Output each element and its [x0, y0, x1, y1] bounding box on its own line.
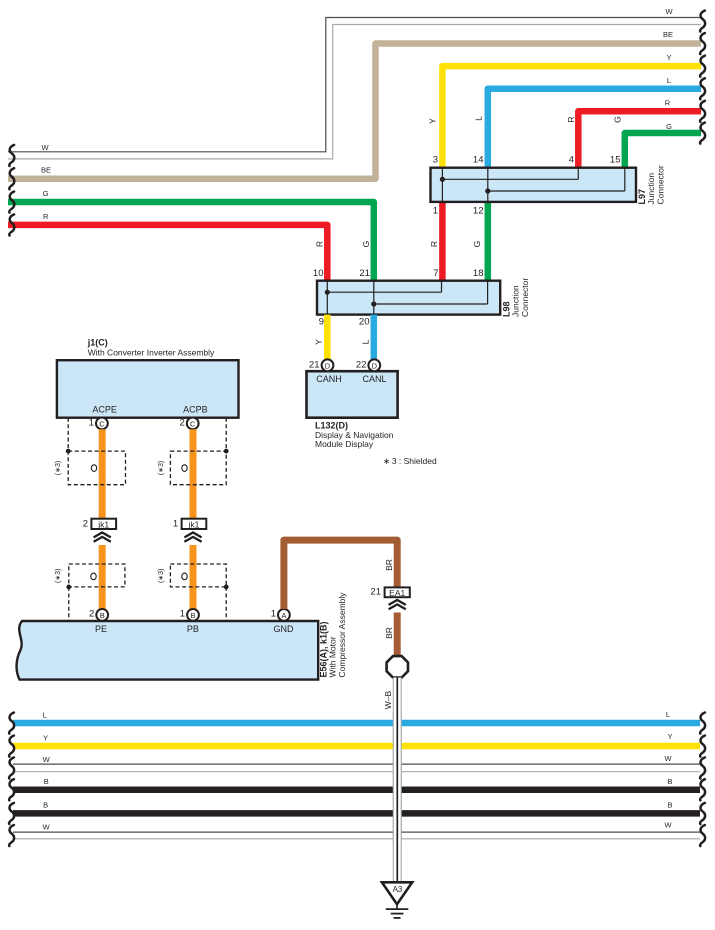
wire Y to L97 pin 3: [428, 53, 706, 169]
wire Y L98 pin9 to L132: [314, 315, 328, 360]
svg-text:Compressor Assembly: Compressor Assembly: [337, 592, 347, 678]
svg-text:3: 3: [433, 154, 438, 165]
svg-text:W: W: [41, 143, 49, 152]
wire G between L97 pin12 and L98 pin18: [472, 201, 488, 282]
wire W top: [8, 7, 705, 166]
svg-text:L: L: [666, 710, 670, 719]
svg-text:18: 18: [473, 268, 484, 279]
svg-text:Y: Y: [667, 732, 672, 741]
wire R to L97 pin 4: [566, 99, 705, 169]
pin 1 circle A: [278, 609, 290, 621]
pin 1 circle B: [187, 609, 199, 621]
svg-text:Connector: Connector: [520, 278, 530, 317]
svg-text:ACPE: ACPE: [92, 405, 117, 415]
svg-text:R: R: [665, 99, 671, 108]
splice jk1 right: [173, 519, 206, 542]
pin 2 circle C: [187, 418, 199, 430]
svg-text:G: G: [43, 189, 49, 198]
svg-text:G: G: [613, 116, 623, 123]
svg-text:GND: GND: [274, 624, 295, 634]
svg-text:With Converter Inverter Assemb: With Converter Inverter Assembly: [88, 348, 215, 358]
svg-text:R: R: [429, 241, 439, 247]
svg-text:PE: PE: [95, 624, 107, 634]
svg-text:L: L: [43, 711, 47, 720]
svg-text:L: L: [474, 116, 484, 121]
svg-text:21: 21: [359, 268, 370, 279]
pin 1 circle C: [96, 418, 108, 430]
svg-text:BR: BR: [384, 627, 394, 639]
svg-text:jk1: jk1: [97, 519, 109, 529]
wire W bottom lower: [9, 820, 705, 846]
wire BR from EA1 to noise filter: [384, 613, 397, 657]
noise filter octagon: [387, 656, 408, 677]
svg-text:1: 1: [271, 608, 276, 619]
shield upper left: [55, 418, 125, 485]
svg-text:W–B: W–B: [383, 690, 393, 709]
svg-text:(∗3): (∗3): [55, 461, 62, 475]
svg-text:G: G: [666, 122, 672, 131]
svg-text:1: 1: [89, 417, 94, 428]
svg-text:R: R: [566, 116, 576, 122]
svg-text:1: 1: [433, 206, 438, 217]
wire L L98 pin20 to L132: [361, 315, 374, 360]
svg-text:2: 2: [89, 608, 94, 619]
svg-text:j1(C): j1(C): [87, 338, 108, 348]
svg-text:12: 12: [473, 206, 484, 217]
svg-text:Connector: Connector: [656, 165, 666, 204]
svg-text:B: B: [190, 611, 195, 620]
wire R between L97 pin1 and L98 pin7: [429, 201, 442, 282]
svg-text:L: L: [667, 76, 671, 85]
svg-text:21: 21: [370, 587, 381, 598]
connector L132(D) display module: [307, 359, 398, 449]
svg-text:Junction: Junction: [511, 285, 521, 317]
shield upper right: [158, 418, 229, 485]
wire BE: [8, 30, 705, 189]
shield lower left: [55, 564, 125, 620]
svg-text:1: 1: [180, 608, 185, 619]
svg-text:BE: BE: [41, 166, 51, 175]
orange wire PB lower: [190, 545, 197, 609]
orange wire ACPB upper: [190, 429, 197, 518]
svg-text:L: L: [361, 339, 371, 344]
wire G to L97 pin 15: [613, 116, 706, 168]
orange wire ACPE upper: [99, 429, 106, 518]
shield lower right: [158, 564, 229, 620]
svg-text:C: C: [99, 419, 105, 428]
svg-text:∗ 3 : Shielded: ∗ 3 : Shielded: [383, 456, 437, 466]
wire B bottom upper: [9, 777, 705, 801]
svg-text:21: 21: [309, 359, 320, 370]
svg-text:W: W: [664, 754, 672, 763]
wire W bottom upper: [9, 754, 705, 779]
svg-text:BR: BR: [384, 559, 394, 571]
wire W-B crossing overlay: [393, 712, 401, 844]
svg-text:W: W: [664, 820, 672, 829]
svg-text:C: C: [190, 419, 196, 428]
svg-text:W: W: [43, 755, 51, 764]
svg-text:ACPB: ACPB: [183, 405, 208, 415]
splice EA1: [370, 587, 409, 610]
svg-text:14: 14: [473, 154, 484, 165]
wire L bottom: [9, 710, 705, 734]
junction connector L97: [431, 154, 666, 216]
svg-text:Y: Y: [43, 734, 48, 743]
svg-text:CANL: CANL: [362, 374, 386, 384]
svg-text:10: 10: [313, 268, 324, 279]
svg-text:PB: PB: [187, 624, 199, 634]
svg-text:4: 4: [569, 154, 574, 165]
svg-text:B: B: [667, 801, 672, 810]
svg-text:22: 22: [356, 359, 367, 370]
svg-text:G: G: [361, 241, 371, 248]
pin 2 circle B: [96, 609, 108, 621]
pin 21 circle D: [322, 359, 334, 371]
svg-text:A: A: [281, 611, 286, 620]
svg-text:Junction: Junction: [646, 173, 656, 205]
svg-text:20: 20: [359, 317, 370, 328]
svg-text:BE: BE: [663, 30, 673, 39]
wire W-B from octagon to ground A3: [383, 678, 401, 883]
wire B bottom lower: [9, 801, 705, 825]
svg-text:B: B: [667, 777, 672, 786]
svg-text:W: W: [665, 7, 673, 16]
svg-text:Y: Y: [428, 118, 438, 124]
splice jk1 left: [83, 519, 116, 542]
svg-text:D: D: [325, 361, 331, 370]
svg-text:W: W: [43, 823, 51, 832]
svg-text:jk1: jk1: [187, 519, 199, 529]
svg-text:R: R: [315, 241, 325, 247]
pin 22 circle D: [368, 359, 380, 371]
svg-text:B: B: [44, 777, 49, 786]
svg-text:B: B: [100, 611, 105, 620]
junction connector L98: [313, 268, 530, 327]
orange wire PE lower: [99, 545, 106, 609]
svg-text:A3: A3: [393, 885, 403, 894]
wire G left to L98 pin 21: [8, 189, 374, 282]
wire BR from GND to EA1: [284, 540, 397, 609]
svg-text:(∗3): (∗3): [55, 569, 62, 583]
svg-text:B: B: [43, 801, 48, 810]
svg-text:CANH: CANH: [316, 374, 342, 384]
svg-text:(∗3): (∗3): [158, 461, 165, 475]
svg-text:1: 1: [173, 519, 178, 530]
svg-text:15: 15: [610, 154, 621, 165]
svg-text:G: G: [472, 241, 482, 248]
svg-text:EA1: EA1: [389, 588, 405, 598]
connector E56 compressor assembly: [17, 592, 347, 680]
ground symbol A3: [382, 882, 412, 918]
svg-text:Y: Y: [666, 53, 671, 62]
connector j1(C) converter inverter assembly: [57, 338, 239, 430]
wire R left to L98 pin 10: [8, 212, 327, 282]
svg-text:(∗3): (∗3): [158, 569, 165, 583]
wire L to L97 pin 14: [474, 76, 706, 169]
svg-text:7: 7: [433, 268, 438, 279]
svg-text:2: 2: [180, 417, 185, 428]
wire Y bottom: [9, 732, 705, 757]
svg-text:D: D: [372, 361, 378, 370]
svg-text:9: 9: [319, 317, 324, 328]
svg-text:Module Display: Module Display: [315, 439, 374, 449]
svg-text:Y: Y: [314, 339, 324, 345]
svg-text:R: R: [43, 212, 49, 221]
svg-text:2: 2: [83, 519, 88, 530]
